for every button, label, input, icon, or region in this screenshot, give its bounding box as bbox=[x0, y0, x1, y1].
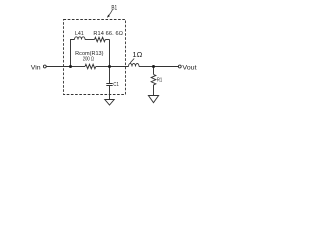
resistor R14 bbox=[95, 37, 106, 41]
wire left riser bbox=[71, 40, 75, 67]
capacitor C1 lead top bbox=[109, 67, 111, 84]
svg-text:Vout: Vout bbox=[182, 65, 196, 72]
svg-text:Vin: Vin bbox=[31, 64, 41, 71]
ground below C1 bbox=[105, 100, 114, 106]
terminal Vin circle bbox=[43, 65, 46, 68]
resistor Rcom R13 bbox=[85, 64, 96, 68]
node B junction dot bbox=[108, 65, 111, 68]
svg-text:C1: C1 bbox=[113, 82, 118, 88]
node A junction dot bbox=[69, 65, 72, 68]
wire node B to inductor bbox=[110, 66, 129, 68]
wire inductor to node C bbox=[139, 66, 154, 68]
svg-text:1Ω: 1Ω bbox=[132, 50, 142, 59]
wire L41 to R14 bbox=[85, 39, 95, 41]
wire node A to Rcom bbox=[71, 66, 86, 68]
inductor L41 bbox=[75, 37, 86, 40]
svg-text:R14 66. 6Ω: R14 66. 6Ω bbox=[93, 31, 123, 37]
arrowhead of B1 leader bbox=[107, 15, 110, 18]
resistor R1 lead bottom bbox=[153, 85, 155, 96]
svg-text:200 Ω: 200 Ω bbox=[83, 57, 94, 63]
block B1 dashed box bbox=[64, 20, 126, 95]
node C junction dot bbox=[152, 65, 155, 68]
terminal Vout circle bbox=[178, 65, 181, 68]
ground at R1 bbox=[148, 96, 158, 103]
wire right riser bbox=[109, 40, 111, 67]
inductor 1ohm bbox=[129, 64, 140, 67]
capacitor C1 plates bbox=[106, 84, 112, 86]
svg-text:R1: R1 bbox=[157, 77, 162, 83]
wire R14 to right riser bbox=[105, 39, 109, 41]
leader arrow from B1 label to box bbox=[109, 10, 113, 16]
capacitor C1 lead bottom bbox=[109, 86, 111, 100]
svg-text:B1: B1 bbox=[111, 4, 117, 11]
resistor R1 lead top bbox=[153, 67, 155, 75]
wire node C to Vout bbox=[154, 66, 179, 68]
leader line from 1ohm label bbox=[130, 59, 134, 63]
svg-text:L41: L41 bbox=[75, 31, 84, 37]
wire Rcom to node B bbox=[96, 66, 110, 68]
resistor R1 bbox=[151, 74, 156, 85]
wire Vin to node A bbox=[46, 66, 70, 68]
